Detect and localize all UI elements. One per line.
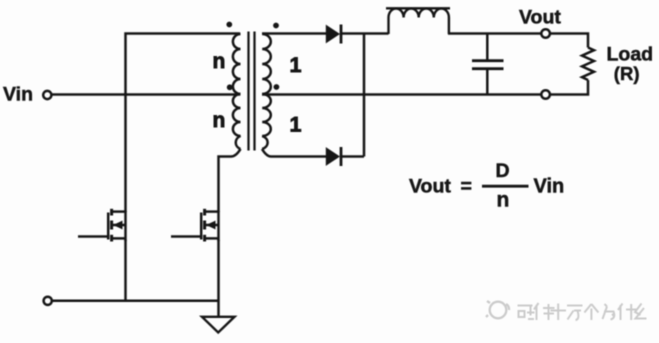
terminal Vout bottom xyxy=(541,90,550,99)
wire D2 cathode to link xyxy=(342,155,364,158)
svg-text:Vin: Vin xyxy=(534,175,565,197)
svg-text:=: = xyxy=(461,175,472,197)
polarity dot primary top xyxy=(226,22,232,28)
transformer T1 primary winding upper xyxy=(233,34,241,94)
polarity dot secondary top xyxy=(273,23,279,29)
transistor Q2 xyxy=(171,209,219,242)
wire Vout terminal to load top xyxy=(550,34,588,48)
transformer core xyxy=(249,32,255,151)
wire load bottom to Vout terminal bottom xyxy=(550,80,588,95)
svg-text:n: n xyxy=(213,109,226,132)
polarity dot primary center xyxy=(227,84,233,90)
svg-text:D: D xyxy=(496,160,510,182)
diode D2 xyxy=(326,147,341,166)
wire Q1 source to bottom rail xyxy=(124,240,127,301)
wire primary bottom end to Q2 drain xyxy=(219,149,241,212)
transformer T1 primary winding lower xyxy=(233,94,241,149)
formula Vout = D/n Vin xyxy=(409,160,564,211)
wire Vin to primary center tap xyxy=(52,93,240,96)
transformer T1 secondary winding upper xyxy=(262,34,271,94)
watermark logo xyxy=(486,301,509,318)
svg-text:Vin: Vin xyxy=(3,84,33,106)
resistor Load R xyxy=(582,48,594,81)
wire secondary top end to D1 anode xyxy=(262,32,326,35)
terminal Vin xyxy=(43,91,51,99)
terminal bottom left xyxy=(44,297,52,305)
capacitor C1 xyxy=(472,61,504,69)
svg-text:(R): (R) xyxy=(614,63,640,84)
svg-text:1: 1 xyxy=(290,53,302,77)
transistor Q1 xyxy=(78,209,126,242)
svg-text:Vout: Vout xyxy=(519,7,561,29)
capacitor C1 top lead xyxy=(486,34,489,61)
svg-text:Vout: Vout xyxy=(409,175,451,197)
transformer T1 secondary winding lower xyxy=(262,94,271,149)
watermark text xyxy=(518,303,647,320)
wire inductor to Vout terminal xyxy=(448,32,541,35)
wire secondary bottom end to D2 anode xyxy=(262,149,326,157)
ground xyxy=(202,317,235,333)
wire primary top end to Q1 drain xyxy=(126,34,241,213)
wire center tap return rail xyxy=(262,93,541,96)
svg-text:1: 1 xyxy=(290,113,302,137)
wire Q2 source to ground xyxy=(217,240,220,317)
wire rectifier link vertical D1-D2 xyxy=(363,34,366,157)
polarity dot secondary center xyxy=(274,84,280,90)
capacitor C1 bottom lead xyxy=(486,70,489,95)
svg-text:n: n xyxy=(213,50,226,73)
wire D1 cathode to inductor xyxy=(342,32,389,35)
terminal Vout top xyxy=(541,29,550,38)
wire bottom rail xyxy=(52,300,218,303)
inductor L1 xyxy=(386,8,450,34)
diode D1 xyxy=(326,25,341,44)
svg-text:n: n xyxy=(497,188,510,211)
